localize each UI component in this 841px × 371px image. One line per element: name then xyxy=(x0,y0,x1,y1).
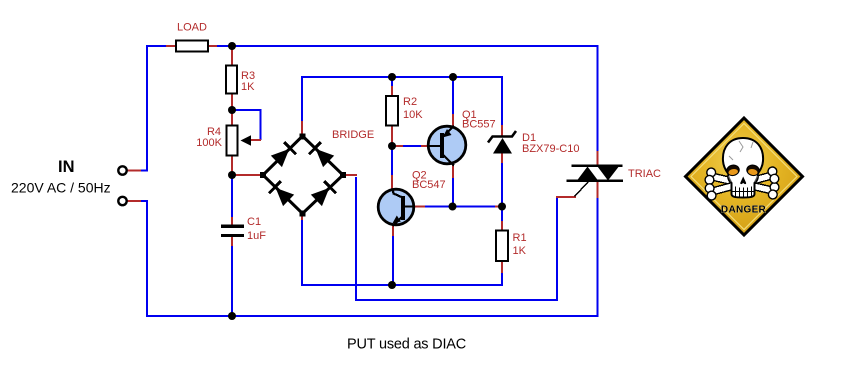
bridge diode bottom-left xyxy=(269,181,294,206)
pin stub: R3 top xyxy=(231,47,233,66)
transistor Q2 body xyxy=(378,189,414,225)
pin stub: Q1 emitter xyxy=(452,114,454,127)
pin stub: R1 bottom xyxy=(501,261,503,273)
triac bottom bar xyxy=(567,180,624,183)
svg-text:IN: IN xyxy=(58,158,75,176)
pin stub: R4 bottom xyxy=(231,155,233,175)
wire: bottom terminal, bottom rail, up to triac MT2 xyxy=(140,197,598,316)
pin stub: R4 wiper xyxy=(247,139,261,141)
pin stub: R2 top xyxy=(391,86,393,97)
triac gate lead xyxy=(575,182,589,197)
transistor Q2 emitter arrow (NPN out) xyxy=(392,216,401,224)
pin stub: Q2 base xyxy=(414,206,425,208)
transistor Q2 collector line xyxy=(393,189,403,198)
terminal top xyxy=(118,166,126,174)
skull cranium and face xyxy=(723,138,763,198)
pin stub: triac MT1 xyxy=(597,151,599,166)
pin stub: C1 top xyxy=(231,217,233,225)
zener D1 cathode bar xyxy=(488,131,516,143)
svg-text:BC547: BC547 xyxy=(412,179,446,191)
wire: pot wiper loop xyxy=(234,110,261,140)
wire: inner box top rail (bridge + rail) xyxy=(302,77,502,126)
junction at R2/Q1 base/Q2 collector xyxy=(388,142,396,150)
svg-text:1uF: 1uF xyxy=(247,230,266,242)
transistor Q1 body xyxy=(428,126,466,164)
junction at Q1 emitter rail xyxy=(449,73,457,81)
capacitor C1 plate top xyxy=(221,225,244,228)
bridge diode bottom-right xyxy=(310,181,335,206)
pin stub: bottom terminal xyxy=(127,200,141,202)
junction at LOAD/R3 xyxy=(228,42,236,50)
wire: Q2 base to D1 node xyxy=(424,206,496,208)
bridge corner pad top xyxy=(300,134,306,140)
pin stub: Q2 emitter xyxy=(392,225,394,236)
svg-text:R1: R1 xyxy=(513,232,527,244)
pin stub: C1 bottom xyxy=(231,237,233,246)
svg-text:C1: C1 xyxy=(247,216,261,228)
svg-text:BZX79-C10: BZX79-C10 xyxy=(522,143,579,155)
skull eye socket left xyxy=(726,164,740,177)
pin stub: bridge bottom corner xyxy=(301,212,303,220)
junction at Q1 collector/Q2 base xyxy=(449,203,457,211)
resistor R1 xyxy=(496,231,508,262)
resistor R3 xyxy=(226,66,237,94)
transistor Q1 emitter line xyxy=(443,126,454,137)
pin stub: R2 bottom xyxy=(391,125,393,144)
terminal bottom xyxy=(118,197,126,205)
triac left triangle xyxy=(577,167,598,181)
pin stub: LOAD right xyxy=(208,45,217,47)
transistor Q2 base bar xyxy=(401,196,405,220)
junction at C1/bottom rail xyxy=(228,312,236,320)
skull eye socket right xyxy=(746,164,760,177)
junction at R3/R4 wiper xyxy=(228,106,236,114)
pin stub: bridge top corner xyxy=(301,121,303,137)
crossbone 1 xyxy=(704,167,780,200)
junction at D1/R1 node xyxy=(498,203,506,211)
transistor Q2 emitter line xyxy=(393,217,403,227)
junction at Q2 emitter/bottom inner rail xyxy=(388,281,396,289)
potentiometer R4 xyxy=(227,126,238,156)
crossbone 2 xyxy=(704,166,780,201)
transistor Q1 base bar xyxy=(440,133,444,158)
wire: Q2 collector blue xyxy=(391,148,393,176)
wire: top terminal to LOAD xyxy=(140,46,168,171)
pin stub: Q1 collector xyxy=(452,164,454,178)
svg-text:10K: 10K xyxy=(403,109,423,121)
junction at R4/bridge/C1 xyxy=(228,171,236,179)
svg-text:220V AC / 50Hz: 220V AC / 50Hz xyxy=(11,180,111,196)
bridge corner pad left xyxy=(260,172,266,178)
svg-text:100K: 100K xyxy=(196,137,222,149)
pin stub: top terminal xyxy=(127,170,141,172)
pin stub: Q1 base near xyxy=(420,145,428,147)
pin stub: R3 bottom xyxy=(231,93,233,110)
wire: Q1 emitter blue xyxy=(452,77,454,115)
svg-text:TRIAC: TRIAC xyxy=(628,168,661,180)
pin stub: bridge left corner xyxy=(234,174,262,176)
skull nose xyxy=(740,177,746,185)
svg-text:PUT used as DIAC: PUT used as DIAC xyxy=(347,337,466,353)
transistor Q2 base line xyxy=(404,206,414,208)
wire: C1 top blue xyxy=(231,177,233,218)
transistor Q1 base line xyxy=(428,145,441,147)
triac top bar xyxy=(572,165,623,168)
svg-text:1K: 1K xyxy=(513,245,527,257)
svg-text:BC557: BC557 xyxy=(462,119,496,131)
skull cheek shade right xyxy=(755,176,758,182)
wire: LOAD right to top-right corner down to triac MT1 xyxy=(216,46,598,152)
svg-text:BRIDGE: BRIDGE xyxy=(332,129,374,141)
wire: inner box bottom rail (bridge - rail) xyxy=(302,213,502,285)
skull cracks xyxy=(729,141,753,160)
svg-text:DANGER: DANGER xyxy=(721,205,767,216)
resistor LOAD xyxy=(176,41,208,52)
skull eye glow right xyxy=(748,168,758,175)
skull teeth lines xyxy=(732,187,755,198)
danger sign inner edge xyxy=(691,124,797,230)
resistor R2 xyxy=(386,96,398,126)
svg-text:R2: R2 xyxy=(403,96,417,108)
pin stub: D1 bottom xyxy=(501,153,503,163)
bridge corner pad right xyxy=(340,172,346,178)
triac right triangle xyxy=(598,167,619,181)
danger sign diamond xyxy=(686,118,803,235)
wire: zener bottom to node rail xyxy=(501,162,503,222)
pin stub: Q1 base xyxy=(395,145,404,147)
pin stub: R4 top xyxy=(231,111,233,126)
wire: R2 top blue xyxy=(391,77,393,87)
junction at R2 top rail xyxy=(388,73,396,81)
wire: C1 bottom blue xyxy=(231,245,233,316)
pin stub: triac MT2 xyxy=(597,181,599,198)
svg-text:LOAD: LOAD xyxy=(177,22,207,34)
bridge diode top-left xyxy=(270,142,295,167)
skull eye glow left xyxy=(728,168,738,175)
bridge corner pad bottom xyxy=(300,211,306,217)
svg-text:1K: 1K xyxy=(241,81,255,93)
pin stub: R1 top xyxy=(501,221,503,231)
wire: Q1 collector blue xyxy=(452,177,454,207)
skull cheek shade left xyxy=(729,176,732,182)
transistor Q1 collector line xyxy=(443,155,454,166)
pin stub: triac gate horizontal xyxy=(556,196,576,198)
capacitor C1 plate bottom xyxy=(221,234,244,237)
bridge diode top-right xyxy=(309,142,334,167)
wire: bridge right corner to gate loop xyxy=(356,177,557,300)
pin stub: Q2 collector xyxy=(391,175,393,189)
transistor Q1 emitter arrow (PNP into base) xyxy=(443,129,452,138)
bridge rectifier frame xyxy=(263,136,343,214)
zener D1 triangle xyxy=(493,138,512,154)
potentiometer R4 wiper arrow xyxy=(241,135,252,146)
wire: Q1 base blue middle xyxy=(403,145,421,147)
pin stub: node to D1 rail xyxy=(495,206,502,208)
wire: Q2 emitter blue xyxy=(392,235,394,285)
pin stub: D1 top xyxy=(501,125,503,136)
pin stub: LOAD left xyxy=(166,45,176,47)
pin stub: bridge right corner xyxy=(344,174,357,176)
